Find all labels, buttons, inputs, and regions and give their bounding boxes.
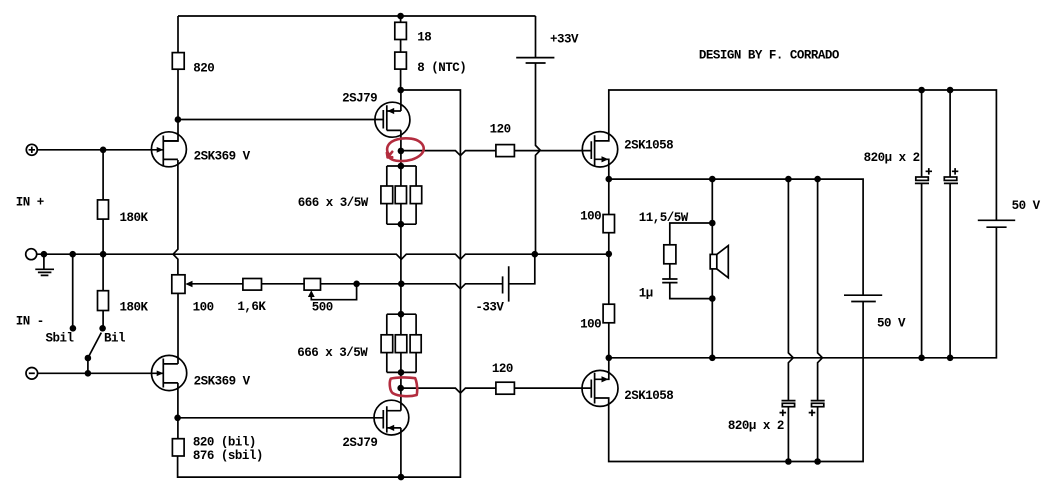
svg-text:666 x 3/5W: 666 x 3/5W (298, 196, 369, 210)
svg-text:11,5/5W: 11,5/5W (639, 211, 689, 225)
svg-text:2SJ79: 2SJ79 (342, 91, 377, 105)
svg-text:120: 120 (490, 123, 511, 137)
svg-text:8 (NTC): 8 (NTC) (417, 61, 466, 75)
svg-text:820 (bil): 820 (bil) (193, 436, 256, 450)
svg-text:820µ x 2: 820µ x 2 (864, 151, 920, 165)
svg-text:2SJ79: 2SJ79 (342, 436, 377, 450)
svg-text:1µ: 1µ (639, 286, 653, 300)
svg-text:180K: 180K (120, 300, 149, 314)
svg-text:820: 820 (193, 62, 214, 76)
svg-text:500: 500 (312, 301, 333, 315)
svg-text:1,6K: 1,6K (237, 300, 266, 314)
svg-text:IN -: IN - (16, 315, 44, 329)
svg-text:2SK1058: 2SK1058 (624, 389, 673, 403)
svg-text:180K: 180K (120, 211, 149, 225)
svg-text:666 x 3/5W: 666 x 3/5W (297, 346, 368, 360)
svg-text:50 V: 50 V (1012, 199, 1041, 213)
svg-text:100: 100 (580, 209, 601, 223)
svg-text:2SK369 V: 2SK369 V (194, 374, 251, 388)
svg-text:DESIGN BY F. CORRADO: DESIGN BY F. CORRADO (699, 48, 840, 62)
svg-text:Sbil: Sbil (46, 331, 74, 345)
svg-text:+33V: +33V (550, 33, 579, 47)
svg-text:120: 120 (492, 362, 513, 376)
svg-text:18: 18 (417, 31, 431, 45)
svg-text:IN +: IN + (16, 196, 44, 210)
svg-text:820µ x 2: 820µ x 2 (728, 419, 784, 433)
svg-text:50 V: 50 V (877, 316, 906, 330)
svg-text:Bil: Bil (104, 331, 125, 345)
svg-text:100: 100 (193, 301, 214, 315)
svg-text:100: 100 (580, 317, 601, 331)
svg-text:876 (sbil): 876 (sbil) (193, 449, 263, 463)
svg-text:2SK369 V: 2SK369 V (194, 150, 251, 164)
svg-text:-33V: -33V (475, 301, 504, 315)
svg-text:2SK1058: 2SK1058 (624, 139, 673, 153)
